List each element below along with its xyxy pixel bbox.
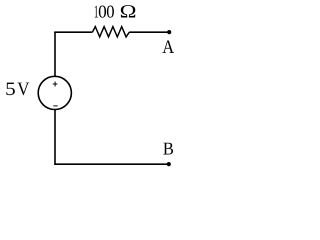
voltage source V1 circle <box>38 76 71 109</box>
svg-text:Ω: Ω <box>119 2 136 23</box>
svg-text:B: B <box>163 138 174 158</box>
svg-text:A: A <box>162 37 174 58</box>
svg-text:V: V <box>17 79 30 100</box>
wire: left vertical upper (source top to top-left corner) <box>54 32 56 77</box>
voltage source minus sign <box>53 105 57 107</box>
svg-text:5: 5 <box>5 79 16 100</box>
wire: bottom horizontal (corner to node B) <box>54 163 169 165</box>
wire: top horizontal right (resistor to node A) <box>129 31 169 33</box>
node A terminal dot <box>167 30 171 34</box>
voltage source value label 5 V <box>5 79 30 100</box>
wire: top horizontal left (corner to resistor) <box>54 31 92 33</box>
wire: left vertical lower (source bottom to bottom-left corner) <box>54 109 56 164</box>
resistor R1 100 ohm zigzag <box>92 27 129 37</box>
voltage source plus sign <box>53 82 58 87</box>
svg-text:0: 0 <box>106 2 114 22</box>
node B terminal dot <box>167 162 171 166</box>
resistor value label 100 Ω <box>94 2 137 23</box>
